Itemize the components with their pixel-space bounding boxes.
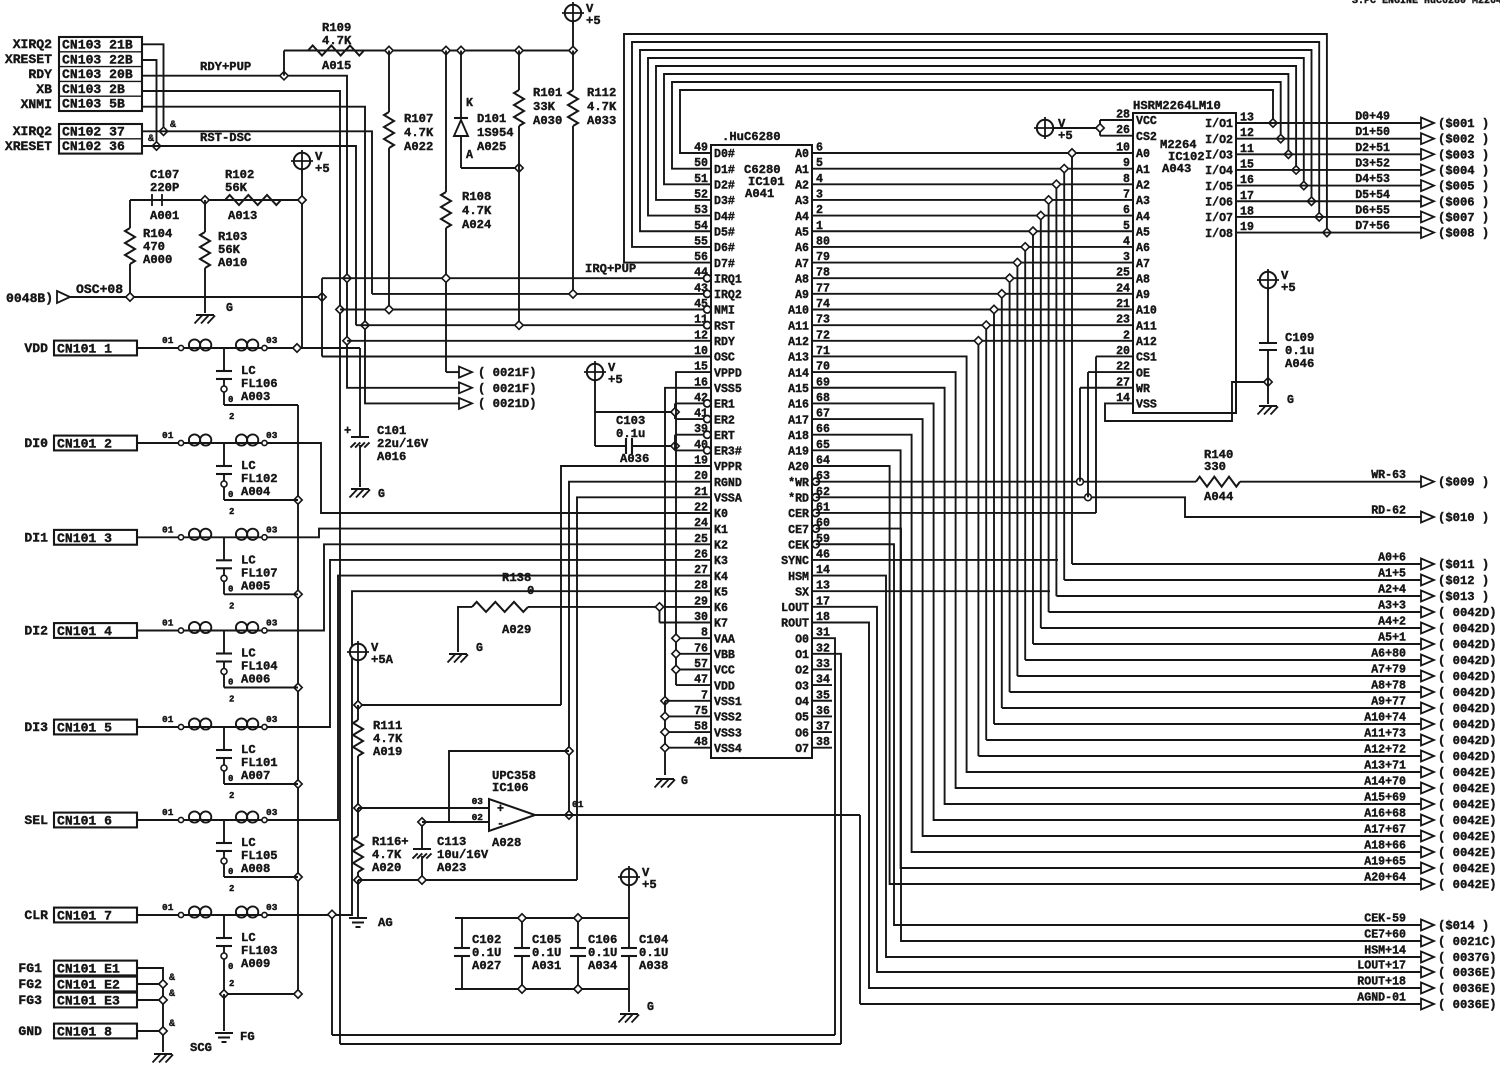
- junction D0#-I/O1: [1269, 119, 1277, 127]
- svg-text:29: 29: [694, 595, 708, 608]
- arrow/label LOUT+17: [1357, 960, 1496, 981]
- svg-text:LOUT+17: LOUT+17: [1357, 960, 1406, 973]
- filter FL107 inductors: [137, 524, 278, 540]
- arrow/label A6 fan: [1371, 648, 1496, 669]
- svg-text:LC: LC: [241, 647, 256, 661]
- wire ER2 stub: [675, 418, 704, 420]
- svg-text:LC: LC: [241, 836, 256, 850]
- arrow/label CEK-59: [1364, 913, 1489, 934]
- svg-text:O3: O3: [795, 680, 809, 693]
- svg-text:( 0042E): ( 0042E): [1438, 766, 1497, 780]
- svg-text:+5: +5: [1058, 129, 1073, 143]
- svg-text:A015: A015: [322, 59, 351, 73]
- junction XB-NMI: [336, 305, 344, 313]
- filter FL104 inductors: [137, 618, 278, 634]
- svg-text:CS1: CS1: [1136, 352, 1157, 365]
- svg-text:RDY+PUP: RDY+PUP: [200, 60, 251, 74]
- junction R116-AG: [354, 876, 362, 884]
- wire A14 bus: [812, 372, 1421, 788]
- svg-text:A1+5: A1+5: [1378, 568, 1406, 581]
- svg-text:XIRQ2: XIRQ2: [13, 37, 52, 52]
- svg-text:VAA: VAA: [714, 633, 735, 646]
- junction osc rail-R103: [201, 196, 209, 204]
- svg-text:G: G: [681, 775, 688, 788]
- svg-text:VSS4: VSS4: [714, 743, 742, 756]
- junction CLR-FG: [220, 990, 228, 998]
- svg-text:01: 01: [162, 430, 174, 441]
- wire NMI row: [340, 309, 707, 311]
- svg-text:0.1u: 0.1u: [616, 427, 645, 441]
- svg-text:( 0036E): ( 0036E): [1438, 966, 1497, 980]
- svg-text:K6: K6: [714, 602, 728, 615]
- IC102 left pin names: [1136, 115, 1157, 411]
- IC101 left pin numbers: [694, 142, 708, 750]
- connector CN101 E3 (FG3): [18, 993, 137, 1009]
- svg-text:CN103 5B: CN103 5B: [62, 97, 125, 112]
- svg-text:16: 16: [694, 376, 708, 389]
- junction A7: [1013, 258, 1021, 266]
- svg-text:CLR: CLR: [24, 908, 48, 923]
- svg-text:30: 30: [694, 611, 708, 624]
- svg-text:DI0: DI0: [24, 436, 48, 451]
- svg-text:R109: R109: [322, 21, 351, 35]
- junction D5#-I/O6: [1307, 197, 1315, 205]
- svg-text:C109: C109: [1285, 331, 1314, 345]
- svg-text:10u/16V: 10u/16V: [437, 848, 489, 862]
- svg-text:XNMI: XNMI: [21, 97, 52, 112]
- junction RST-R101: [515, 321, 523, 329]
- svg-text:A16: A16: [788, 399, 809, 412]
- arrow/label A1 fan: [1378, 568, 1489, 589]
- svg-text:0: 0: [527, 584, 534, 598]
- junction D2#-I/O3: [1284, 150, 1292, 158]
- svg-text:I/O7: I/O7: [1205, 212, 1233, 225]
- wire I/O2 output: [1236, 138, 1421, 140]
- junction RD: [1085, 494, 1092, 501]
- svg-text:0.1U: 0.1U: [472, 946, 501, 960]
- svg-text:( 0042D): ( 0042D): [1438, 750, 1497, 764]
- svg-text:+: +: [344, 424, 351, 438]
- svg-text:A029: A029: [502, 623, 531, 637]
- wire ROUT net: [812, 623, 1421, 989]
- wire op-amp output / AGND-01: [535, 815, 860, 1004]
- resistor R102: [225, 168, 281, 223]
- svg-text:R108: R108: [462, 190, 491, 204]
- arrow/label A16 fan: [1364, 808, 1496, 829]
- svg-text:XB: XB: [36, 82, 52, 97]
- capacitor C105: [514, 918, 561, 989]
- svg-text:K2: K2: [714, 539, 728, 552]
- svg-text:2: 2: [229, 791, 234, 801]
- wire D101 anode to R101: [461, 167, 519, 169]
- wire A12 bus: [812, 341, 1421, 756]
- wire A15 bus: [812, 388, 1421, 804]
- connector CN102 block: [59, 124, 142, 154]
- svg-text:( 0042E): ( 0042E): [1438, 814, 1497, 828]
- junction WR: [1077, 478, 1084, 485]
- wire XRESET 22B to CN102-36: [142, 60, 157, 146]
- arrow/label D1+50: [1355, 126, 1489, 147]
- svg-text:( 0042D): ( 0042D): [1438, 686, 1497, 700]
- junction VSS5-VSS1: [661, 697, 669, 705]
- arrow/label A13 fan: [1364, 760, 1496, 781]
- CN103 signal labels: [5, 37, 52, 112]
- svg-text:*WR: *WR: [788, 477, 809, 490]
- svg-text:O6: O6: [795, 727, 809, 740]
- svg-text:RGND: RGND: [714, 477, 742, 490]
- junction VDD-+5: [293, 344, 301, 352]
- wire RGND net: [569, 482, 711, 816]
- svg-text:($009 ): ($009 ): [1438, 476, 1489, 490]
- svg-text:A19: A19: [788, 446, 809, 459]
- connector CN101 7 (CLR): [24, 908, 137, 924]
- svg-text:A2: A2: [795, 180, 809, 193]
- svg-text:FG1: FG1: [18, 961, 42, 976]
- svg-text:A027: A027: [472, 959, 501, 973]
- arrow/label D5+54: [1355, 189, 1489, 210]
- junction rail-R108: [442, 46, 450, 54]
- wire CER to CS1: [816, 356, 1133, 513]
- svg-text:7: 7: [701, 689, 708, 702]
- svg-text:RD-62: RD-62: [1371, 505, 1406, 518]
- svg-text:IRQ+PUP: IRQ+PUP: [585, 262, 636, 276]
- svg-text:4.7K: 4.7K: [587, 100, 617, 114]
- svg-text:03: 03: [266, 430, 278, 441]
- junction D4#-I/O5: [1300, 181, 1308, 189]
- arrow/label ROUT+18: [1357, 976, 1496, 997]
- label WR-63: [1371, 469, 1489, 490]
- svg-text:C104: C104: [639, 933, 668, 947]
- connector CN101 6 (SEL): [24, 813, 137, 829]
- svg-text:O5: O5: [795, 712, 809, 725]
- junction OSC+08-IRQ1v: [318, 293, 326, 301]
- svg-text:O4: O4: [795, 696, 809, 709]
- wire +5 to VDD filter: [298, 196, 306, 348]
- svg-text:D0#: D0#: [714, 148, 735, 161]
- svg-text:22: 22: [694, 501, 708, 514]
- svg-text:VPPD: VPPD: [714, 367, 742, 380]
- svg-text:A041: A041: [745, 187, 774, 201]
- junction VSS4: [661, 744, 669, 752]
- svg-text:VSS1: VSS1: [714, 696, 742, 709]
- wire I/O4 output: [1236, 169, 1421, 171]
- wire D1# bus: [672, 82, 1281, 169]
- svg-text:A7: A7: [795, 258, 809, 271]
- svg-text:( 0021F): ( 0021F): [478, 382, 537, 396]
- svg-text:A4+2: A4+2: [1378, 616, 1406, 629]
- connector CN101 3 (DI1): [24, 530, 137, 546]
- wire OE to #RD: [1088, 372, 1133, 497]
- svg-text:AG: AG: [378, 916, 393, 930]
- svg-text:VSSA: VSSA: [714, 493, 742, 506]
- svg-text:A19+65: A19+65: [1364, 856, 1406, 869]
- svg-text:ROUT+18: ROUT+18: [1357, 976, 1406, 989]
- svg-text:2: 2: [229, 884, 234, 894]
- svg-text:D2+51: D2+51: [1355, 142, 1390, 155]
- junction A2: [1052, 180, 1060, 188]
- svg-text:A11+73: A11+73: [1364, 728, 1406, 741]
- svg-text:($013 ): ($013 ): [1438, 590, 1489, 604]
- junction rail-R101: [515, 46, 523, 54]
- svg-text:O2: O2: [795, 665, 809, 678]
- wire CLR cap branch: [224, 972, 298, 994]
- svg-text:VSS2: VSS2: [714, 712, 742, 725]
- arrow/label A18 fan: [1364, 840, 1496, 861]
- arrow/label A12 fan: [1364, 744, 1496, 765]
- svg-text:($006 ): ($006 ): [1438, 195, 1489, 209]
- svg-text:A0+6: A0+6: [1378, 552, 1406, 565]
- wire O1 net: [812, 654, 841, 1044]
- capacitor C101: [267, 348, 429, 487]
- svg-text:( 0042E): ( 0042E): [1438, 782, 1497, 796]
- svg-text:A14+70: A14+70: [1364, 776, 1406, 789]
- arrow/label AGND-01: [1357, 992, 1496, 1013]
- wire A2 bus: [812, 184, 1421, 596]
- svg-text:A8+78: A8+78: [1371, 680, 1406, 693]
- svg-text:A2+4: A2+4: [1378, 584, 1406, 597]
- svg-text:OSC: OSC: [714, 352, 735, 365]
- wire VDD stub: [676, 684, 711, 686]
- svg-text:C103: C103: [616, 414, 645, 428]
- svg-text:8: 8: [701, 627, 708, 640]
- svg-text:( 0042D): ( 0042D): [1438, 734, 1497, 748]
- junction RDY+PUP / R109: [280, 72, 288, 80]
- junction op-amp out: [565, 811, 573, 819]
- svg-text:VDD: VDD: [714, 680, 735, 693]
- svg-text:A007: A007: [241, 769, 270, 783]
- svg-text:CN101 1: CN101 1: [57, 342, 112, 357]
- svg-text:SCG: SCG: [190, 1041, 212, 1055]
- junction RDY+PUP / IRQ1: [343, 274, 351, 282]
- svg-text:IRQ2: IRQ2: [714, 289, 742, 302]
- junction D101-R101: [515, 164, 523, 172]
- svg-text:4.7K: 4.7K: [462, 204, 492, 218]
- svg-text:I/O6: I/O6: [1205, 196, 1233, 209]
- svg-text:A3+3: A3+3: [1378, 600, 1406, 613]
- svg-text:K0: K0: [714, 508, 728, 521]
- junction VSS-C109: [1264, 378, 1272, 386]
- svg-text:75: 75: [694, 705, 708, 718]
- arrow/label A4 fan: [1378, 616, 1496, 637]
- svg-text:D1#: D1#: [714, 164, 735, 177]
- svg-text:I/O8: I/O8: [1205, 228, 1233, 241]
- svg-text:CS2: CS2: [1136, 131, 1157, 144]
- junction OSC-R104: [126, 293, 134, 301]
- svg-text:0.1U: 0.1U: [588, 946, 617, 960]
- wire op-amp feedback: [449, 751, 569, 822]
- svg-text:+5A: +5A: [371, 653, 394, 667]
- svg-text:I/O1: I/O1: [1205, 118, 1233, 131]
- svg-text:27: 27: [694, 564, 708, 577]
- svg-text:R104: R104: [143, 227, 172, 241]
- svg-text:0: 0: [228, 774, 233, 784]
- junction cap bus: [294, 780, 302, 788]
- wire +5A rail: [358, 704, 561, 706]
- wire ERT stub: [675, 434, 704, 436]
- wire AG rail: [358, 880, 577, 918]
- svg-text:( 0042D): ( 0042D): [1438, 638, 1497, 652]
- junction RDY+PUP / RDY: [343, 337, 351, 345]
- svg-text:FG2: FG2: [18, 977, 42, 992]
- svg-text:FG3: FG3: [18, 993, 42, 1008]
- wire I/O6 output: [1236, 200, 1421, 202]
- connector CN101 E2 (FG2): [18, 977, 137, 993]
- svg-text:A11: A11: [1136, 320, 1157, 333]
- wire VCC stub: [676, 669, 711, 671]
- junction R111-R116: [354, 804, 362, 812]
- svg-text:O7: O7: [795, 743, 809, 756]
- power +5A V: [347, 641, 394, 705]
- filter FL102 inductors: [137, 430, 278, 446]
- svg-text:+5: +5: [642, 878, 657, 892]
- svg-text:2: 2: [229, 601, 234, 611]
- svg-text:A10: A10: [788, 305, 809, 318]
- svg-text:ROUT: ROUT: [781, 618, 809, 631]
- svg-text:R138: R138: [502, 571, 531, 585]
- svg-text:VSS5: VSS5: [714, 383, 742, 396]
- wire SEL to K4: [267, 576, 711, 820]
- svg-text:A12: A12: [788, 336, 809, 349]
- wire D3# bus: [656, 66, 1296, 200]
- svg-text:22u/16V: 22u/16V: [377, 437, 429, 451]
- wire FG bus: [137, 968, 163, 1052]
- junction VBB: [672, 650, 680, 658]
- svg-text:( 0042E): ( 0042E): [1438, 798, 1497, 812]
- wire DI2 cap return: [224, 687, 298, 689]
- svg-text:A12: A12: [1136, 336, 1157, 349]
- junction ER bracket: [671, 408, 679, 416]
- svg-text:D101: D101: [477, 112, 506, 126]
- wire XB net: [142, 91, 340, 1044]
- wire A1 bus: [812, 169, 1421, 580]
- arrow/label D0+49: [1355, 111, 1489, 132]
- svg-text:XRESET: XRESET: [5, 52, 52, 67]
- svg-text:RDY: RDY: [714, 336, 735, 349]
- svg-text:+5: +5: [1281, 281, 1296, 295]
- svg-text:LC: LC: [241, 931, 256, 945]
- svg-text:ER2: ER2: [714, 414, 735, 427]
- svg-text:.HuC6280: .HuC6280: [722, 130, 781, 144]
- resistor R103: [200, 200, 247, 313]
- junction cap bus: [294, 590, 302, 598]
- svg-text:A18+66: A18+66: [1364, 840, 1406, 853]
- IC102 right pin names: [1205, 118, 1233, 241]
- svg-text:CN101 4: CN101 4: [57, 624, 112, 639]
- svg-text:I/O3: I/O3: [1205, 150, 1233, 163]
- svg-text:( 0021D): ( 0021D): [478, 397, 537, 411]
- svg-text:R107: R107: [404, 112, 433, 126]
- svg-text:03: 03: [266, 618, 278, 629]
- svg-text:($011 ): ($011 ): [1438, 558, 1489, 572]
- svg-text:( 0042E): ( 0042E): [1438, 830, 1497, 844]
- svg-text:O0: O0: [795, 633, 809, 646]
- svg-text:I/O5: I/O5: [1205, 181, 1233, 194]
- wire ER1 stub: [675, 402, 704, 404]
- svg-text:*RD: *RD: [788, 493, 809, 506]
- wire A5 bus: [812, 231, 1421, 644]
- ground C109 G: [1258, 394, 1295, 415]
- junction VSS2: [661, 712, 669, 720]
- svg-text:D6+55: D6+55: [1355, 204, 1390, 217]
- svg-text:CN103 20B: CN103 20B: [62, 67, 133, 82]
- svg-text:03: 03: [266, 524, 278, 535]
- arrow/label A14 fan: [1364, 776, 1496, 797]
- svg-text:A13+71: A13+71: [1364, 760, 1406, 773]
- arrow/label A17 fan: [1364, 824, 1496, 845]
- svg-text:OE: OE: [1136, 367, 1150, 380]
- wire DI0 cap return: [224, 499, 298, 501]
- arrow/label D4+53: [1355, 173, 1489, 194]
- wire D5# bus: [640, 50, 1312, 231]
- svg-text:0048B): 0048B): [6, 291, 53, 306]
- arrow/label D2+51: [1355, 142, 1489, 163]
- svg-text:C101: C101: [377, 424, 406, 438]
- wire RDY+PUP net: [142, 60, 459, 388]
- junction XNMI / RST: [361, 321, 369, 329]
- svg-text:01: 01: [162, 902, 174, 913]
- svg-text:A10+74: A10+74: [1364, 712, 1406, 725]
- wire A9 bus: [812, 294, 1421, 708]
- svg-text:A013: A013: [228, 209, 257, 223]
- svg-text:( 0042E): ( 0042E): [1438, 862, 1497, 876]
- wire I/O3 output: [1236, 153, 1421, 155]
- svg-text:01: 01: [162, 618, 174, 629]
- wire bottom rail 1: [332, 914, 835, 1035]
- svg-text:GND: GND: [18, 1024, 42, 1039]
- svg-text:D1+50: D1+50: [1355, 126, 1390, 139]
- connector CN101 1 (VDD): [24, 341, 137, 357]
- svg-text:A12+72: A12+72: [1364, 744, 1406, 757]
- arrow/label A10 fan: [1364, 712, 1496, 733]
- ground VSS G: [655, 775, 689, 788]
- wire GND stub: [137, 1030, 163, 1032]
- svg-text:25: 25: [694, 533, 708, 546]
- diode D101: [454, 51, 514, 169]
- wire OSC row: [322, 278, 711, 356]
- power +5 V osc: [291, 150, 330, 200]
- svg-text:A005: A005: [241, 579, 270, 593]
- arrow/label A20 fan: [1364, 872, 1496, 893]
- wire I/O5 output: [1236, 185, 1421, 187]
- filter FL101 inductors: [137, 714, 278, 730]
- wire +5 to VCC/CS2: [1054, 120, 1134, 136]
- svg-text:A022: A022: [404, 140, 433, 154]
- resistor R107: [384, 51, 434, 310]
- svg-text:A020: A020: [372, 861, 401, 875]
- arrow 0021F b: [459, 382, 537, 396]
- svg-text:R103: R103: [218, 230, 247, 244]
- connector CN101 4 (DI2): [24, 623, 137, 639]
- wire SX stub: [812, 590, 1050, 592]
- svg-text:CN101 2: CN101 2: [57, 437, 112, 452]
- svg-text:OSC+08: OSC+08: [76, 282, 123, 297]
- svg-text:ERT: ERT: [714, 430, 735, 443]
- ground osc G: [195, 302, 234, 324]
- svg-text:($002 ): ($002 ): [1438, 133, 1489, 147]
- svg-text:CE7: CE7: [788, 524, 809, 537]
- wire DI3 cap return: [224, 783, 298, 785]
- svg-text:LC: LC: [241, 459, 256, 473]
- IC101 left pin bubbles: [704, 275, 711, 454]
- svg-text:A17: A17: [788, 414, 809, 427]
- arrow/label A15 fan: [1364, 792, 1496, 813]
- connector CN103 block: [59, 37, 142, 112]
- svg-text:A15+69: A15+69: [1364, 792, 1406, 805]
- connector CN101 5 (DI3): [24, 720, 137, 736]
- svg-text:( 0021C): ( 0021C): [1438, 935, 1497, 949]
- svg-text:2: 2: [229, 507, 234, 517]
- wire VSSA net: [577, 497, 711, 880]
